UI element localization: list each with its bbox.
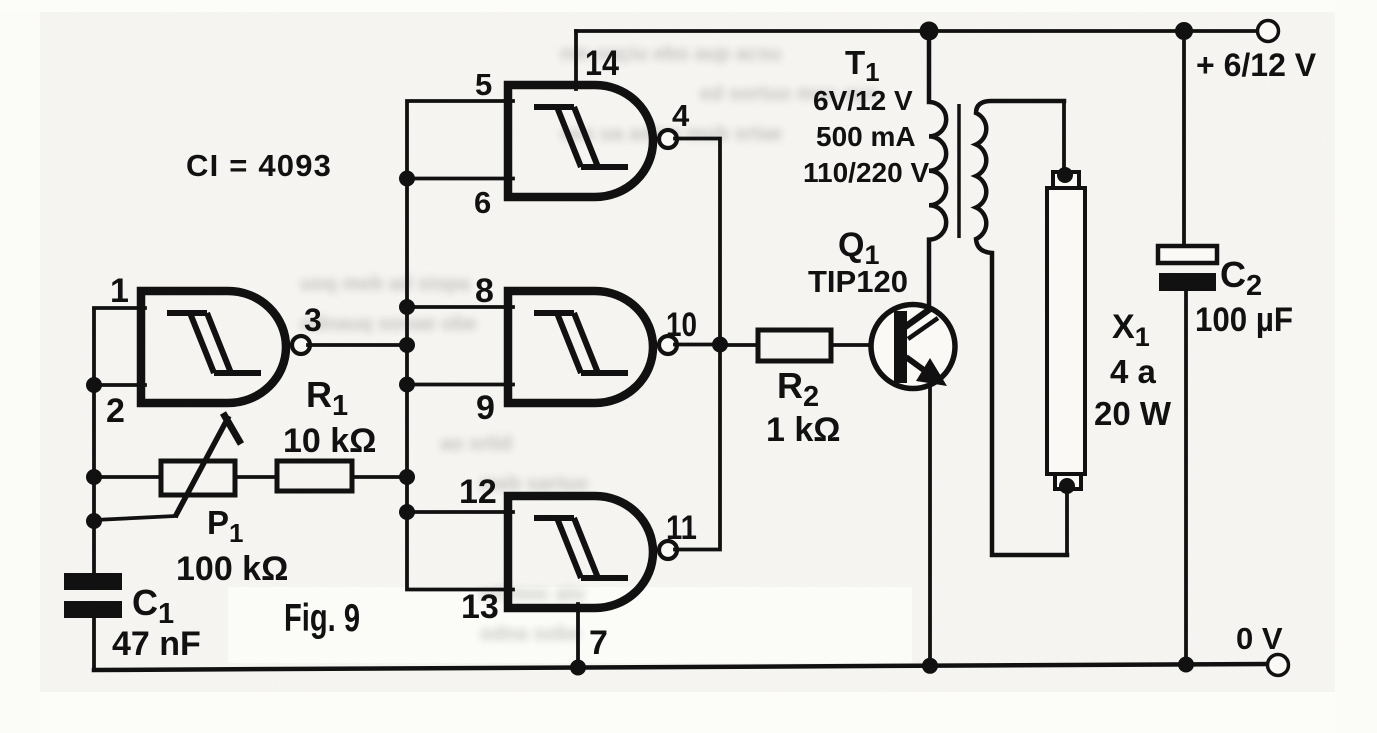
wire pin1 stub — [94, 306, 145, 310]
node bus pin3 — [399, 337, 415, 353]
label pin 8 — [475, 272, 494, 310]
node output bus — [712, 337, 728, 353]
faint bleed-through background texture — [300, 43, 878, 645]
capacitor C1 — [64, 573, 122, 618]
svg-text:100 kΩ: 100 kΩ — [176, 550, 288, 588]
svg-text:2: 2 — [106, 392, 125, 430]
P1 arrow — [175, 413, 241, 517]
label X1 — [1112, 308, 1150, 352]
node bus pin6 — [399, 171, 415, 187]
svg-text:7: 7 — [589, 624, 608, 662]
svg-text:4: 4 — [672, 98, 690, 133]
label 20 W — [1094, 395, 1172, 432]
lamp X1 tube — [1047, 172, 1085, 489]
transformer T1 secondary — [976, 101, 1067, 555]
svg-text:odnauq sonae obe: odnauq sonae obe — [300, 313, 477, 335]
transformer T1 primary — [929, 31, 946, 308]
node wiper junction — [86, 513, 102, 529]
label Q1 — [838, 226, 879, 270]
svg-text:10 kΩ: 10 kΩ — [283, 422, 376, 460]
wire emitter to 0V — [928, 386, 932, 666]
label 100 uF — [1195, 301, 1293, 339]
node bus pin9 — [399, 377, 415, 393]
svg-text:9: 9 — [476, 389, 495, 427]
svg-text:5: 5 — [475, 67, 492, 102]
node bus pin8 — [399, 299, 415, 315]
label pin 6 — [474, 185, 491, 220]
transistor Q1 TIP120 — [871, 305, 955, 389]
wire wiper — [94, 516, 176, 520]
label pin 13 — [461, 588, 499, 626]
svg-text:1 kΩ: 1 kΩ — [766, 411, 841, 449]
wire left rail — [92, 309, 96, 576]
node pin7 junction — [570, 660, 586, 676]
wire C1 bottom — [92, 617, 96, 670]
node lamp bottom — [1059, 478, 1075, 494]
svg-text:CI = 4093: CI = 4093 — [186, 148, 332, 183]
label 4 a — [1110, 353, 1157, 390]
svg-text:20 W: 20 W — [1094, 395, 1172, 432]
svg-text:6: 6 — [474, 185, 491, 220]
wire R1 to bus — [352, 475, 407, 479]
wire R2 to base — [831, 343, 895, 347]
wire output bus vertical — [675, 139, 720, 550]
wire to P1 — [94, 475, 161, 479]
wire pin12 stub — [407, 510, 513, 514]
svg-text:8: 8 — [475, 272, 494, 310]
op gate U1d (pins 12,13,11) — [508, 496, 677, 608]
label Fig. 9 — [284, 597, 360, 640]
svg-text:10: 10 — [666, 306, 697, 344]
label 6V/12 V — [813, 85, 913, 116]
wire pin10 out — [675, 343, 720, 347]
wire pin6 stub — [407, 177, 513, 181]
node bus R1 — [399, 469, 415, 485]
label pin 14 — [585, 44, 619, 83]
label 10 kOhm — [283, 422, 376, 460]
node lamp top — [1057, 167, 1073, 183]
svg-text:odna sobe: odna sobe — [480, 623, 580, 645]
wire top supply rail — [576, 29, 1257, 33]
wire secondary to lamp top — [1062, 101, 1066, 172]
label pin 3 — [304, 302, 322, 338]
node C2 0V — [1178, 657, 1194, 673]
label T1 — [845, 44, 880, 87]
wire bus to R2 — [720, 343, 758, 347]
node bus pin12 — [399, 504, 415, 520]
svg-text:500 mA: 500 mA — [816, 121, 916, 152]
transformer core — [957, 104, 961, 238]
label pin 10 — [666, 306, 697, 344]
capacitor C2 — [1158, 246, 1217, 291]
label pin 1 — [110, 272, 129, 310]
label CI = 4093 — [186, 148, 332, 183]
svg-text:uoq meb ad siopa: uoq meb ad siopa — [300, 273, 471, 295]
svg-text:11: 11 — [666, 509, 697, 547]
label TIP120 — [808, 264, 908, 299]
label pin 11 — [666, 509, 697, 547]
svg-text:TIP120: TIP120 — [808, 264, 908, 299]
label pin 4 — [672, 98, 690, 133]
svg-text:100 µF: 100 µF — [1195, 301, 1293, 339]
svg-text:110/220 V: 110/220 V — [803, 157, 929, 188]
wire pin14 riser — [574, 31, 578, 89]
terminal + supply — [1258, 21, 1279, 42]
label R2 — [777, 365, 819, 413]
label 500 mA — [816, 121, 916, 152]
wire pin2 stub — [94, 383, 145, 387]
wire bottom 0V rail — [94, 664, 1267, 670]
label 47 nF — [112, 625, 201, 663]
svg-text:1: 1 — [110, 272, 129, 310]
label C1 — [132, 582, 174, 630]
svg-text:3: 3 — [304, 302, 322, 338]
wire C2 top — [1182, 31, 1186, 246]
svg-text:14: 14 — [585, 44, 619, 83]
label pin 5 — [475, 67, 492, 102]
wire pin3 output to bus — [308, 343, 407, 347]
svg-text:0 V: 0 V — [1236, 621, 1283, 656]
svg-text:Fig. 9: Fig. 9 — [284, 597, 360, 640]
svg-text:12: 12 — [459, 473, 497, 511]
wire lamp bottom down — [1065, 489, 1069, 555]
node top rail T1 — [920, 22, 939, 41]
label C2 — [1220, 254, 1262, 302]
resistor R2 — [758, 330, 831, 361]
wire pin9 stub — [407, 383, 513, 387]
wire P1 to R1 — [235, 475, 277, 479]
label 110/220 V — [803, 157, 929, 188]
wire C2 bottom — [1184, 291, 1188, 665]
node top rail C2 — [1175, 22, 1193, 40]
svg-text:+ 6/12 V: + 6/12 V — [1196, 47, 1317, 83]
label pin 9 — [476, 389, 495, 427]
wire pin7 riser — [576, 604, 580, 668]
resistor R1 — [277, 461, 352, 491]
svg-text:13: 13 — [461, 588, 499, 626]
op gate U1c (pins 8,9,10) — [508, 291, 677, 403]
label pin 12 — [459, 473, 497, 511]
label R1 — [306, 374, 348, 422]
node left rail P1 top — [86, 469, 102, 485]
label 0V — [1236, 621, 1283, 656]
svg-text:47 nF: 47 nF — [112, 625, 201, 663]
wire pin8 stub — [407, 305, 513, 309]
node emitter 0V — [922, 658, 938, 674]
node pin2 junction — [86, 377, 102, 393]
op gate U1b (pins 5,6,4,14) — [508, 85, 677, 197]
op gate U1a (pins 1,2,3) — [141, 291, 310, 403]
label 100 kOhm — [176, 550, 288, 588]
svg-text:4 a: 4 a — [1110, 353, 1157, 390]
label pin 2 — [106, 392, 125, 430]
label 1 kOhm — [766, 411, 841, 449]
wire input bus vertical — [407, 101, 513, 590]
label +6/12V — [1196, 47, 1317, 83]
potentiometer P1 — [161, 461, 235, 495]
label pin 7 — [589, 624, 608, 662]
terminal 0V — [1268, 655, 1289, 676]
svg-text:6V/12 V: 6V/12 V — [813, 85, 913, 116]
svg-text:ao srtid: ao srtid — [440, 433, 512, 455]
label P1 — [207, 504, 243, 548]
